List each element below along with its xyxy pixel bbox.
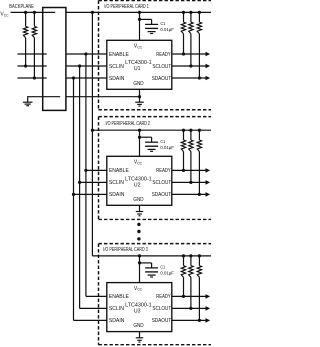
svg-text:SDAOUT: SDAOUT [152, 76, 172, 82]
junction dot SCLOUT res top card 2 [189, 129, 192, 132]
svg-text:SCLIN: SCLIN [109, 180, 124, 186]
svg-text:GND: GND [133, 323, 144, 329]
svg-text:SDAIN: SDAIN [109, 76, 125, 82]
svg-text:READY: READY [156, 168, 171, 174]
junction dot VCC drop card 2 [138, 129, 141, 132]
junction dot SDAOUT res top card 2 [198, 129, 201, 132]
svg-text:0.01µF: 0.01µF [160, 27, 174, 33]
wire card 2 SDAIN stub [74, 193, 107, 195]
wire card 3 SCLIN stub [80, 307, 107, 309]
capacitor C1 card 3 [140, 262, 152, 264]
wire VCC drop to U3 [139, 256, 141, 283]
ground cap card 2 [148, 148, 156, 150]
junction dot SCL bus tap [78, 64, 81, 67]
junction dot VCC drop card 3 [138, 254, 141, 257]
junction dot SDAOUT res top card 1 [198, 11, 201, 14]
wire card 2 SCLIN stub [80, 181, 107, 183]
resistor pullup SCLOUT card 1 [190, 12, 192, 22]
wire SDA to card1 SDAIN [66, 77, 107, 79]
wire SDA bus backplane [18, 77, 47, 79]
junction dot READY res bottom card 3 [182, 295, 185, 298]
buffer U2 LTC4300-1 box [107, 156, 172, 205]
svg-text:U3: U3 [134, 309, 141, 315]
svg-text:GND: GND [133, 197, 144, 203]
wire card 3 VCC rail [92, 255, 211, 257]
vertical bus SCL [79, 66, 81, 308]
svg-text:SDAIN: SDAIN [109, 318, 125, 324]
resistor pullup SCLOUT card 3 [190, 256, 192, 266]
wire VCC rail backplane [11, 11, 56, 13]
wire GND backplane [28, 96, 61, 98]
wire GND stem U3 [139, 332, 141, 338]
svg-text:LTC4300-1: LTC4300-1 [125, 176, 152, 182]
junction dot SCLOUT res top card 1 [189, 11, 192, 14]
svg-text:SDAOUT: SDAOUT [152, 318, 172, 324]
junction dot READY res top card 1 [182, 11, 185, 14]
svg-text:LTC4300-1: LTC4300-1 [125, 302, 152, 308]
I/O peripheral card 2 dashed outline [99, 116, 212, 118]
junction dot READY res bottom card 1 [182, 52, 185, 55]
junction dot SCLOUT res bottom card 1 [189, 64, 192, 67]
vertical bus SDA [73, 78, 75, 320]
wire SCL to card1 SCLIN [66, 65, 107, 67]
wire READY card 1 [172, 53, 206, 55]
resistor pullup SDAOUT card 1 [198, 12, 200, 22]
resistor pullup SDAOUT card 3 [198, 256, 200, 266]
wire SCLOUT card 3 [172, 307, 206, 309]
svg-text:I/O PERIPHERAL CARD 3: I/O PERIPHERAL CARD 3 [103, 247, 148, 253]
svg-text:0.01µF: 0.01µF [160, 271, 174, 277]
svg-text:GND: GND [133, 81, 144, 87]
wire ENABLE bus backplane [18, 53, 47, 55]
ground card 2 [136, 211, 143, 213]
junction dot READY res top card 2 [182, 129, 185, 132]
I/O peripheral card 1 dashed outline [99, 0, 212, 2]
junction dot VCC drop card 1 [138, 11, 141, 14]
buffer U1 LTC4300-1 box [107, 40, 172, 89]
connector J1 backplane [43, 8, 66, 111]
ground card 3 [136, 337, 143, 339]
junction dot SCLOUT res top card 3 [189, 254, 192, 257]
I/O peripheral card 3 dashed outline [99, 243, 212, 245]
resistor pullup SDAOUT card 2 [198, 130, 200, 140]
junction dot cap branch card 3 [138, 261, 141, 264]
resistor pullup READY card 1 [183, 12, 185, 22]
ground card 1 [135, 101, 144, 103]
wire card 3 ENABLE stub [86, 295, 107, 297]
junction dot READY res bottom card 2 [182, 169, 185, 172]
capacitor C1 card 2 [140, 136, 152, 138]
wire VCC drop to U2 [139, 130, 141, 156]
svg-text:I/O PERIPHERAL CARD 2: I/O PERIPHERAL CARD 2 [106, 121, 151, 127]
svg-text:U1: U1 [134, 66, 141, 72]
wire SCL bus backplane [18, 65, 47, 67]
junction dot ENABLE tap [84, 169, 87, 172]
ellipsis more cards [137, 223, 140, 226]
junction dot R-SCL bottom [24, 64, 27, 67]
svg-text:BACKPLANE: BACKPLANE [9, 4, 34, 10]
svg-text:SCLOUT: SCLOUT [152, 64, 172, 70]
svg-text:SCLIN: SCLIN [109, 306, 124, 312]
ground backplane [23, 101, 33, 103]
wire READY card 2 [172, 169, 206, 171]
resistor pullup SCLOUT card 2 [190, 130, 192, 140]
resistor R pullup SDA [33, 12, 35, 26]
junction dot READY res top card 3 [182, 254, 185, 257]
junction dot SDAOUT res bottom card 2 [198, 193, 201, 196]
wire card 3 SDAIN stub [74, 319, 107, 321]
wire card 2 ENABLE stub [86, 169, 107, 171]
wire GND to card1 [66, 96, 140, 98]
vertical bus ENABLE [85, 54, 87, 296]
wire SCLOUT card 1 [172, 65, 206, 67]
wire GND stem U2 [139, 205, 141, 211]
junction dot R2 top [33, 11, 36, 14]
svg-text:C1: C1 [160, 21, 165, 27]
junction dot SDAOUT res top card 3 [198, 254, 201, 257]
junction dot ENABLE bus tap [84, 52, 87, 55]
wire SDAOUT card 2 [172, 193, 206, 195]
junction dot SDAOUT res bottom card 3 [198, 319, 201, 322]
svg-text:ENABLE: ENABLE [109, 294, 130, 300]
svg-text:C1: C1 [160, 265, 165, 271]
junction dot cap branch card 2 [138, 136, 141, 139]
capacitor C1 card 1 [140, 18, 152, 20]
wire ENABLE to card1 [66, 53, 107, 55]
svg-text:LTC4300-1: LTC4300-1 [125, 60, 152, 66]
svg-text:SCLIN: SCLIN [109, 64, 124, 70]
resistor pullup READY card 2 [183, 130, 185, 140]
wire card 2 VCC rail [92, 129, 211, 131]
svg-text:READY: READY [156, 294, 171, 300]
svg-text:SDAOUT: SDAOUT [152, 192, 172, 198]
svg-text:SCLOUT: SCLOUT [152, 306, 172, 312]
wire SDAOUT card 1 [172, 77, 206, 79]
junction dot SCLOUT res bottom card 2 [189, 181, 192, 184]
junction dot VCC rail tap card 2 [91, 129, 94, 132]
svg-text:ENABLE: ENABLE [109, 168, 130, 174]
wire READY card 3 [172, 295, 206, 297]
junction dot SDA bus tap [72, 76, 75, 79]
wire VCC to card1 [66, 11, 211, 13]
junction dot VCC bus tap [91, 11, 94, 14]
wire GND stem U1 [139, 89, 141, 102]
ground cap card 1 [148, 31, 156, 33]
svg-text:U2: U2 [134, 183, 141, 189]
junction dot cap branch card 1 [138, 18, 141, 21]
wire SDAOUT card 3 [172, 319, 206, 321]
wire VCC drop to U1 [139, 12, 141, 40]
svg-text:C1: C1 [160, 139, 165, 145]
svg-text:READY: READY [156, 52, 171, 58]
svg-text:ENABLE: ENABLE [109, 52, 130, 58]
vertical bus VCC [91, 12, 93, 256]
junction dot SDAOUT res bottom card 1 [198, 76, 201, 79]
junction dot R1 top [24, 11, 27, 14]
junction dot SCLOUT res bottom card 3 [189, 307, 192, 310]
wire SCLOUT card 2 [172, 181, 206, 183]
svg-text:SDAIN: SDAIN [109, 192, 125, 198]
junction dot SCL tap [78, 181, 81, 184]
junction dot R-SDA bottom [33, 76, 36, 79]
ground cap card 3 [148, 274, 156, 276]
svg-text:0.01µF: 0.01µF [160, 145, 174, 151]
resistor R pullup SCL [25, 12, 27, 26]
svg-text:I/O PERIPHERAL CARD 1: I/O PERIPHERAL CARD 1 [104, 4, 149, 10]
svg-text:SCLOUT: SCLOUT [152, 180, 172, 186]
resistor pullup READY card 3 [183, 256, 185, 266]
junction dot GND card 1 [138, 95, 141, 98]
buffer U3 LTC4300-1 box [107, 283, 172, 332]
junction dot SDA tap [72, 193, 75, 196]
